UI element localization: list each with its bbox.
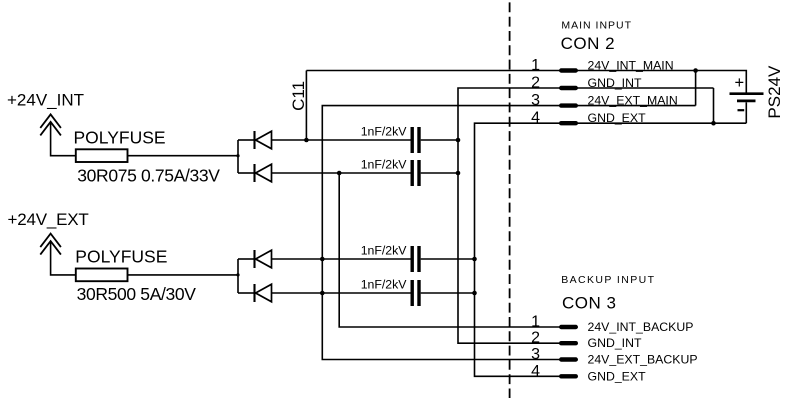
wire to diode D2 bbox=[238, 172, 254, 174]
capacitor 2 bbox=[412, 160, 419, 186]
svg-text:3: 3 bbox=[531, 346, 540, 363]
svg-text:1: 1 bbox=[531, 314, 540, 331]
diode D1 bbox=[255, 131, 272, 149]
svg-text:24V_EXT_MAIN: 24V_EXT_MAIN bbox=[588, 94, 678, 108]
svg-text:BACKUP INPUT: BACKUP INPUT bbox=[561, 274, 655, 286]
junction at F2 output bbox=[236, 273, 239, 276]
wire D4 output to capacitor bbox=[272, 292, 412, 294]
junction GND at battery bbox=[711, 121, 716, 126]
svg-text:24V_INT_BACKUP: 24V_INT_BACKUP bbox=[588, 320, 694, 334]
power symbol +24V_INT bbox=[7, 90, 84, 135]
svg-text:+: + bbox=[735, 74, 745, 92]
svg-text:30R075 0.75A/33V: 30R075 0.75A/33V bbox=[77, 165, 220, 185]
svg-text:1nF/2kV: 1nF/2kV bbox=[361, 277, 408, 291]
wire to diode D4 bbox=[238, 292, 254, 294]
svg-text:3: 3 bbox=[531, 92, 540, 109]
svg-text:+24V_INT: +24V_INT bbox=[7, 90, 84, 109]
diode D4 bbox=[255, 284, 272, 302]
wire GND_INT to battery minus node bbox=[713, 88, 715, 123]
svg-text:2: 2 bbox=[531, 330, 540, 347]
junction 24V_EXT node a bbox=[320, 257, 325, 262]
wire battery minus to GND node bbox=[745, 102, 747, 123]
svg-text:1nF/2kV: 1nF/2kV bbox=[361, 157, 408, 171]
junction cap1 / GND_INT bbox=[456, 138, 461, 143]
CON3 pin 3 pad bbox=[561, 357, 576, 361]
polyfuse F1 body bbox=[76, 149, 128, 162]
capacitor 1 bbox=[412, 127, 419, 153]
power symbol +24V_EXT bbox=[8, 210, 89, 255]
junction node C11 bbox=[304, 138, 309, 143]
wire diode splitter (EXT) bbox=[237, 259, 239, 293]
svg-text:CON 2: CON 2 bbox=[561, 34, 615, 53]
polyfuse F2 body bbox=[76, 269, 128, 282]
junction at F1 output bbox=[236, 154, 239, 157]
junction cap2 / GND_INT bbox=[456, 171, 461, 176]
CON2 pin 3 pad bbox=[561, 103, 576, 107]
junction 24V at battery bbox=[693, 68, 698, 73]
CON3 pin 1 pad bbox=[561, 325, 576, 329]
svg-text:C11: C11 bbox=[289, 81, 308, 111]
capacitor 4 bbox=[412, 280, 419, 306]
svg-text:24V_INT_MAIN: 24V_INT_MAIN bbox=[588, 59, 674, 73]
wire C11 net vertical bbox=[305, 71, 307, 141]
wire cap3 to GND_EXT rail bbox=[421, 258, 475, 260]
wire D2 output to capacitor bbox=[272, 172, 412, 174]
wire GND_EXT rail CON2 pin4 to CON3 pin4 bbox=[475, 123, 747, 376]
wire from +24V_EXT arrow to fuse F2 and diodes bbox=[51, 242, 238, 275]
wire to diode D1 bbox=[238, 139, 254, 141]
junction cap3 / GND_EXT bbox=[472, 257, 477, 262]
svg-text:GND_EXT: GND_EXT bbox=[588, 111, 647, 125]
wire 24V_EXT_MAIN up to battery plus node bbox=[695, 71, 697, 106]
boundary dashed line bbox=[509, 2, 511, 398]
wire cap4 to GND_EXT rail bbox=[421, 292, 475, 294]
svg-text:4: 4 bbox=[531, 110, 540, 127]
svg-text:1nF/2kV: 1nF/2kV bbox=[361, 124, 408, 138]
svg-text:1: 1 bbox=[531, 57, 540, 74]
wire 24V_INT_BACKUP to CON3 pin1 bbox=[339, 173, 577, 327]
wire D1 output to capacitor bbox=[272, 139, 412, 141]
CON3 pin 4 pad bbox=[561, 374, 576, 378]
junction cap4 / GND_EXT bbox=[472, 291, 477, 296]
svg-text:POLYFUSE: POLYFUSE bbox=[75, 246, 167, 266]
CON2 pin 4 pad bbox=[561, 121, 576, 125]
battery minus sign bbox=[738, 109, 745, 111]
wire cap1 to GND_INT rail bbox=[421, 139, 458, 141]
wire 24V_INT_MAIN to CON2 pin1 and battery plus bbox=[306, 71, 746, 93]
capacitor 3 bbox=[412, 246, 419, 272]
svg-text:GND_INT: GND_INT bbox=[588, 76, 642, 90]
diode D2 bbox=[255, 164, 272, 182]
svg-text:POLYFUSE: POLYFUSE bbox=[74, 127, 166, 147]
wire to diode D3 bbox=[238, 258, 254, 260]
wire from +24V_INT arrow to fuse F1 and diodes bbox=[51, 123, 238, 156]
wire diode splitter (INT) bbox=[237, 140, 239, 173]
svg-text:+24V_EXT: +24V_EXT bbox=[8, 210, 89, 229]
wire GND_INT rail CON2 pin2 to CON3 pin2 bbox=[458, 88, 714, 343]
junction 24V_INT_BACKUP tap bbox=[337, 171, 342, 176]
svg-text:PS24V: PS24V bbox=[765, 65, 784, 119]
svg-text:1nF/2kV: 1nF/2kV bbox=[361, 243, 408, 257]
svg-text:30R500 5A/30V: 30R500 5A/30V bbox=[77, 284, 197, 304]
diode D3 bbox=[255, 250, 272, 268]
svg-text:24V_EXT_BACKUP: 24V_EXT_BACKUP bbox=[588, 353, 698, 367]
svg-text:CON 3: CON 3 bbox=[562, 294, 616, 313]
svg-text:GND_INT: GND_INT bbox=[588, 336, 642, 350]
wire 24V_EXT net CON2 pin3 / CON3 pin3 bbox=[322, 106, 695, 360]
CON2 pin 2 pad bbox=[561, 86, 576, 90]
CON2 pin 1 pad bbox=[561, 68, 576, 72]
junction 24V_EXT node b bbox=[320, 291, 325, 296]
CON3 pin 2 pad bbox=[561, 341, 576, 345]
svg-text:GND_EXT: GND_EXT bbox=[588, 369, 647, 383]
wire cap2 to GND_INT rail bbox=[421, 172, 458, 174]
wire D3 output to capacitor bbox=[272, 258, 412, 260]
svg-text:4: 4 bbox=[531, 363, 540, 380]
battery PS24V plates bbox=[730, 94, 764, 101]
svg-text:2: 2 bbox=[531, 75, 540, 92]
svg-text:MAIN INPUT: MAIN INPUT bbox=[561, 19, 632, 31]
